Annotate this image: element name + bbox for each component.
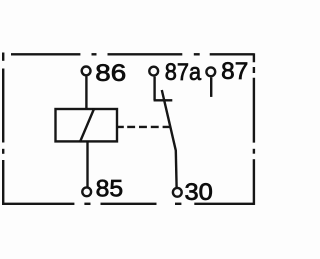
terminal circle 30 (173, 188, 182, 197)
svg-text:87a: 87a (165, 59, 202, 86)
svg-text:85: 85 (96, 176, 124, 203)
wire terminal 87a down (153, 77, 155, 101)
mechanical link (dashed) coil to arm (117, 126, 171, 128)
terminal circle 87a (149, 67, 158, 76)
wire stub terminal 87 (210, 77, 212, 97)
relay body outline bottom (84, 203, 254, 205)
svg-text:30: 30 (185, 179, 213, 206)
terminal circle 85 (82, 187, 91, 196)
wire terminal 86 to coil (85, 76, 87, 109)
coil K (box) (56, 109, 118, 141)
relay body outline (dash-dot border) top (3, 53, 254, 63)
wire coil to terminal 85 (86, 141, 88, 186)
relay body outline left (2, 69, 74, 205)
terminal circle 86 (82, 67, 91, 76)
relay body outline right (253, 67, 255, 205)
svg-text:86: 86 (95, 60, 126, 87)
terminal circle 87 (206, 67, 215, 76)
svg-text:87: 87 (221, 58, 248, 85)
coil diagonal (80, 109, 94, 142)
switch arm from 30 to 87a (162, 90, 177, 187)
contact 87a foot bar (154, 99, 173, 101)
